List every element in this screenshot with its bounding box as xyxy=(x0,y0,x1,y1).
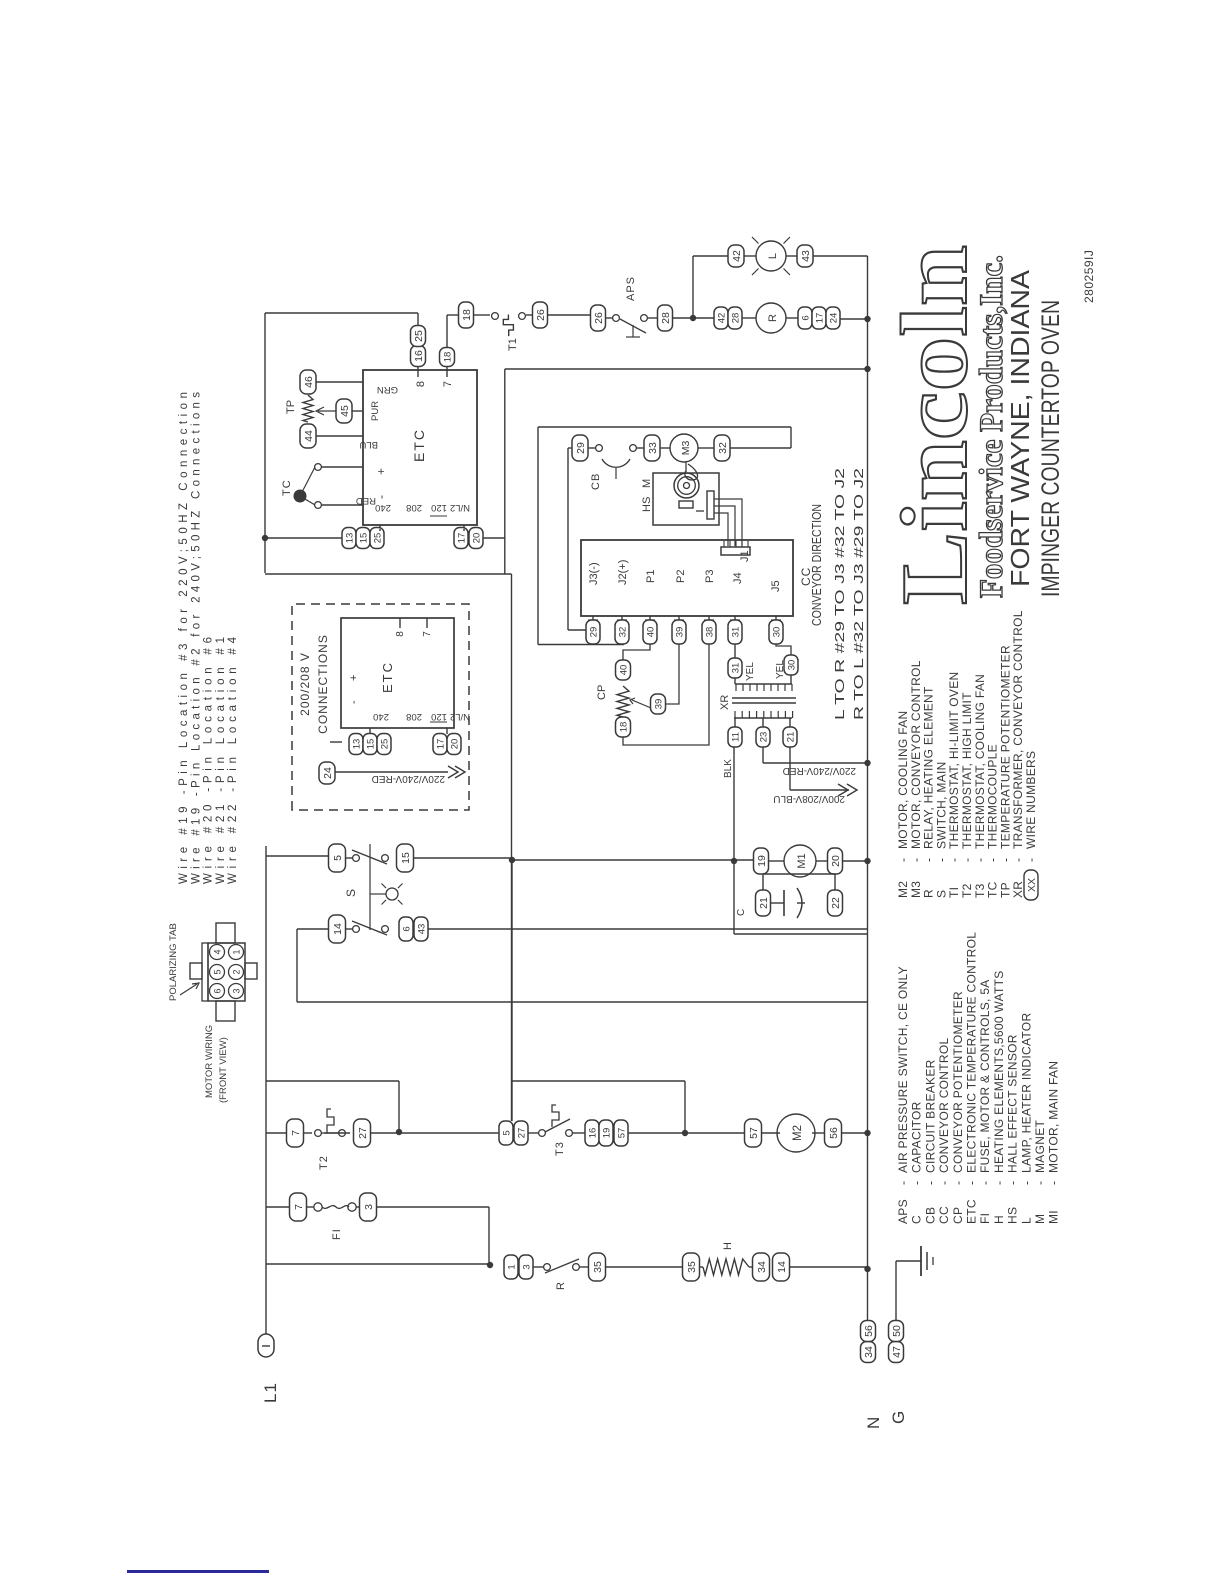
svg-text:CB: CB xyxy=(590,473,602,490)
svg-text:31: 31 xyxy=(730,663,741,674)
svg-text:40: 40 xyxy=(618,665,629,676)
svg-text:CC: CC xyxy=(937,1206,951,1224)
svg-text:-: - xyxy=(992,1181,1006,1185)
svg-text:M: M xyxy=(1033,1214,1047,1224)
svg-text:-: - xyxy=(910,1181,924,1185)
svg-text:56: 56 xyxy=(828,1127,840,1139)
svg-text:Wire #20 -Pin Location #6: Wire #20 -Pin Location #6 xyxy=(203,637,215,884)
svg-text:L TO R #29 TO J3 #32 TO J2: L TO R #29 TO J3 #32 TO J2 xyxy=(833,468,847,720)
svg-text:M: M xyxy=(641,479,653,488)
svg-text:H: H xyxy=(722,1242,734,1250)
svg-text:24: 24 xyxy=(828,313,839,324)
svg-text:XR: XR xyxy=(719,695,731,710)
svg-text:FI: FI xyxy=(978,1213,992,1224)
svg-text:FORT WAYNE, INDIANA: FORT WAYNE, INDIANA xyxy=(1005,269,1035,587)
svg-text:+: + xyxy=(348,675,360,681)
svg-text:11: 11 xyxy=(730,732,741,742)
svg-text:P3: P3 xyxy=(704,570,716,583)
svg-text:27: 27 xyxy=(516,1128,527,1139)
svg-text:200V/208V-BLU: 200V/208V-BLU xyxy=(773,793,845,804)
svg-text:-: - xyxy=(1033,1181,1047,1185)
svg-text:26: 26 xyxy=(535,309,547,321)
svg-text:8: 8 xyxy=(395,631,406,637)
svg-text:CP: CP xyxy=(596,685,608,700)
svg-text:C: C xyxy=(736,909,747,916)
svg-text:21: 21 xyxy=(785,732,796,743)
svg-text:CONNECTIONS: CONNECTIONS xyxy=(316,634,330,734)
svg-text:M3: M3 xyxy=(680,441,692,456)
svg-text:CONVEYOR DIRECTION: CONVEYOR DIRECTION xyxy=(810,504,824,626)
svg-text:MI: MI xyxy=(1047,1210,1061,1224)
svg-text:42: 42 xyxy=(731,250,743,262)
svg-text:26: 26 xyxy=(593,312,605,324)
svg-text:57: 57 xyxy=(616,1128,627,1139)
svg-text:240: 240 xyxy=(373,711,389,722)
svg-text:40: 40 xyxy=(645,627,656,638)
svg-text:HS: HS xyxy=(641,497,653,512)
svg-text:L1: L1 xyxy=(261,1382,280,1403)
svg-text:YEL: YEL xyxy=(775,660,786,679)
svg-text:280259IJ: 280259IJ xyxy=(1082,250,1096,303)
svg-text:-: - xyxy=(937,1181,951,1185)
svg-text:30: 30 xyxy=(771,627,782,638)
svg-text:35: 35 xyxy=(686,1261,698,1273)
svg-text:CIRCUIT BREAKER: CIRCUIT BREAKER xyxy=(923,1059,937,1173)
svg-text:J2(+): J2(+) xyxy=(617,560,629,585)
svg-text:7: 7 xyxy=(422,631,433,637)
svg-text:19: 19 xyxy=(601,1128,612,1139)
svg-text:8: 8 xyxy=(415,381,427,387)
svg-text:BLK: BLK xyxy=(723,759,734,778)
svg-text:35: 35 xyxy=(592,1261,604,1273)
svg-text:N/L2: N/L2 xyxy=(450,502,470,513)
svg-text:17: 17 xyxy=(456,533,467,544)
svg-text:34: 34 xyxy=(756,1261,768,1273)
svg-text:CB: CB xyxy=(923,1207,937,1224)
svg-text:34: 34 xyxy=(863,1346,875,1358)
svg-text:20: 20 xyxy=(830,855,842,867)
svg-text:MOTOR WIRING: MOTOR WIRING xyxy=(204,1025,215,1098)
svg-text:J1: J1 xyxy=(739,550,751,562)
svg-text:23: 23 xyxy=(758,732,769,743)
svg-text:YEL: YEL xyxy=(745,662,756,681)
svg-text:39: 39 xyxy=(653,699,664,710)
svg-text:15: 15 xyxy=(365,739,376,750)
svg-text:-: - xyxy=(978,1181,992,1185)
svg-text:ETC: ETC xyxy=(380,661,395,693)
svg-text:120: 120 xyxy=(431,711,447,722)
svg-text:200/208 V: 200/208 V xyxy=(298,652,312,716)
svg-text:P2: P2 xyxy=(675,570,687,583)
svg-text:56: 56 xyxy=(863,1325,875,1337)
svg-text:43: 43 xyxy=(416,924,427,935)
svg-text:7: 7 xyxy=(442,381,454,387)
svg-text:14: 14 xyxy=(332,923,344,935)
svg-text:17: 17 xyxy=(435,739,446,750)
svg-text:3: 3 xyxy=(521,1264,532,1269)
svg-text:5: 5 xyxy=(332,855,344,861)
svg-text:TP: TP xyxy=(285,400,297,414)
svg-text:18: 18 xyxy=(618,722,629,733)
svg-text:-: - xyxy=(348,700,360,704)
svg-text:18: 18 xyxy=(461,309,473,321)
svg-text:Lincoln: Lincoln xyxy=(883,245,987,605)
svg-text:1: 1 xyxy=(506,1264,517,1269)
svg-text:57: 57 xyxy=(748,1127,760,1139)
svg-text:M2: M2 xyxy=(792,1125,804,1141)
svg-text:28: 28 xyxy=(660,312,672,324)
svg-text:Wire #19 -Pin Location #3 for: Wire #19 -Pin Location #3 for 220V;50HZ … xyxy=(178,392,190,884)
svg-text:L: L xyxy=(1019,1217,1033,1224)
svg-text:CONVEYOR CONTROL: CONVEYOR CONTROL xyxy=(937,1037,951,1173)
svg-text:2: 2 xyxy=(232,969,242,974)
svg-text:13: 13 xyxy=(351,739,362,750)
svg-text:25: 25 xyxy=(413,330,425,342)
svg-text:HALL EFFECT SENSOR: HALL EFFECT SENSOR xyxy=(1006,1034,1020,1173)
svg-text:J4: J4 xyxy=(732,572,744,584)
svg-text:ETC: ETC xyxy=(965,1199,979,1224)
svg-text:Wire #22 -Pin Location #4: Wire #22 -Pin Location #4 xyxy=(227,636,239,884)
svg-text:15: 15 xyxy=(400,852,412,864)
svg-text:(FRONT VIEW): (FRONT VIEW) xyxy=(218,1037,229,1103)
svg-text:ETC: ETC xyxy=(411,428,427,462)
svg-text:5: 5 xyxy=(213,969,223,974)
svg-text:1: 1 xyxy=(232,949,242,954)
svg-text:BLU: BLU xyxy=(359,439,378,450)
svg-text:13: 13 xyxy=(344,533,355,544)
svg-text:29: 29 xyxy=(588,627,599,638)
svg-text:R: R xyxy=(767,314,779,322)
svg-text:M1: M1 xyxy=(796,853,808,868)
svg-text:14: 14 xyxy=(776,1261,788,1273)
svg-text:XX: XX xyxy=(1026,878,1038,892)
svg-text:22: 22 xyxy=(830,897,842,909)
svg-text:J5: J5 xyxy=(770,580,782,592)
svg-text:AIR PRESSURE SWITCH, CE ONLY: AIR PRESSURE SWITCH, CE ONLY xyxy=(896,966,910,1173)
svg-text:MOTOR, MAIN FAN: MOTOR, MAIN FAN xyxy=(1047,1061,1061,1173)
svg-text:CP: CP xyxy=(951,1207,965,1224)
svg-text:-: - xyxy=(1047,1181,1061,1185)
svg-text:18: 18 xyxy=(442,352,453,363)
svg-text:-: - xyxy=(923,1181,937,1185)
svg-text:C: C xyxy=(910,1215,924,1224)
svg-text:GRN: GRN xyxy=(377,384,398,395)
svg-text:24: 24 xyxy=(322,767,334,779)
svg-text:HS: HS xyxy=(1006,1207,1020,1224)
svg-text:5: 5 xyxy=(501,1130,512,1135)
svg-text:-: - xyxy=(951,1181,965,1185)
svg-text:Wire #21 -Pin Location #1: Wire #21 -Pin Location #1 xyxy=(215,637,227,884)
svg-text:29: 29 xyxy=(575,442,587,454)
svg-text:240: 240 xyxy=(375,502,391,513)
svg-text:-: - xyxy=(1006,1181,1020,1185)
svg-text:6: 6 xyxy=(800,315,811,320)
svg-text:31: 31 xyxy=(730,627,741,638)
svg-text:32: 32 xyxy=(717,442,729,454)
svg-text:42: 42 xyxy=(716,313,727,324)
svg-text:45: 45 xyxy=(339,405,351,417)
svg-text:-: - xyxy=(1024,858,1038,862)
svg-text:7: 7 xyxy=(293,1204,305,1210)
svg-text:S: S xyxy=(344,889,358,897)
svg-text:50: 50 xyxy=(891,1325,903,1337)
svg-text:T3: T3 xyxy=(554,1141,566,1156)
svg-text:APS: APS xyxy=(896,1199,910,1224)
svg-text:220V/240V-RED: 220V/240V-RED xyxy=(783,765,856,776)
svg-text:6: 6 xyxy=(401,926,412,931)
svg-text:19: 19 xyxy=(756,855,768,867)
svg-text:15: 15 xyxy=(358,533,369,544)
svg-text:N/L2: N/L2 xyxy=(450,711,470,722)
svg-text:38: 38 xyxy=(704,627,715,638)
svg-text:16: 16 xyxy=(587,1128,598,1139)
svg-text:39: 39 xyxy=(674,627,685,638)
svg-text:PUR: PUR xyxy=(370,401,381,421)
svg-text:XR: XR xyxy=(1011,881,1025,898)
svg-text:P1: P1 xyxy=(645,570,657,583)
svg-text:6: 6 xyxy=(213,988,223,993)
svg-text:33: 33 xyxy=(647,442,659,454)
svg-text:32: 32 xyxy=(617,627,628,638)
svg-text:21: 21 xyxy=(758,897,770,909)
svg-text:T1: T1 xyxy=(507,338,519,351)
svg-text:HEATING ELEMENTS,5600 WATTS: HEATING ELEMENTS,5600 WATTS xyxy=(992,970,1006,1173)
svg-text:25: 25 xyxy=(372,533,383,544)
svg-text:220V/240V-RED: 220V/240V-RED xyxy=(372,773,445,784)
svg-text:16: 16 xyxy=(413,350,425,362)
svg-text:CONVEYOR POTENTIOMETER: CONVEYOR POTENTIOMETER xyxy=(951,991,965,1173)
svg-text:17: 17 xyxy=(814,313,825,324)
svg-text:G: G xyxy=(889,1411,908,1424)
svg-text:H: H xyxy=(992,1215,1006,1224)
svg-text:FI: FI xyxy=(331,1228,343,1240)
svg-text:20: 20 xyxy=(471,533,482,544)
svg-text:7: 7 xyxy=(290,1130,302,1136)
svg-text:3: 3 xyxy=(363,1204,375,1210)
svg-text:44: 44 xyxy=(303,430,315,442)
svg-text:R TO L #32 TO J3 #29 TO J2: R TO L #32 TO J3 #29 TO J2 xyxy=(852,468,866,720)
svg-text:46: 46 xyxy=(303,376,315,388)
svg-text:20: 20 xyxy=(449,739,460,750)
svg-text:47: 47 xyxy=(891,1346,903,1358)
svg-text:28: 28 xyxy=(730,313,741,324)
svg-text:APS: APS xyxy=(625,276,637,301)
svg-text:POLARIZING TAB: POLARIZING TAB xyxy=(168,923,179,1001)
svg-text:J3(-): J3(-) xyxy=(588,562,600,585)
svg-text:N: N xyxy=(864,1417,883,1429)
svg-text:LAMP, HEATER INDICATOR: LAMP, HEATER INDICATOR xyxy=(1019,1013,1033,1173)
svg-text:-: - xyxy=(374,495,388,499)
svg-text:TC: TC xyxy=(281,479,293,496)
svg-text:43: 43 xyxy=(800,250,812,262)
svg-text:IMPINGER COUNTERTOP OVEN: IMPINGER COUNTERTOP OVEN xyxy=(1037,300,1065,597)
svg-text:FUSE, MOTOR & CONTROLS, 5A: FUSE, MOTOR & CONTROLS, 5A xyxy=(978,979,992,1173)
svg-text:27: 27 xyxy=(357,1127,369,1139)
svg-text:-: - xyxy=(896,1181,910,1185)
svg-text:120: 120 xyxy=(431,502,447,513)
svg-text:T2: T2 xyxy=(318,1155,330,1170)
svg-text:L: L xyxy=(767,253,779,259)
svg-text:+: + xyxy=(374,468,388,475)
svg-text:ELECTRONIC TEMPERATURE CONTROL: ELECTRONIC TEMPERATURE CONTROL xyxy=(965,932,979,1173)
svg-text:30: 30 xyxy=(786,660,797,671)
svg-text:CAPACITOR: CAPACITOR xyxy=(910,1101,924,1173)
svg-text:-: - xyxy=(965,1181,979,1185)
svg-text:R: R xyxy=(555,1282,567,1290)
svg-text:Wire #19 -Pin Location #2 for: Wire #19 -Pin Location #2 for 240V;50HZ … xyxy=(190,392,202,884)
svg-text:3: 3 xyxy=(232,988,242,993)
svg-text:25: 25 xyxy=(379,739,390,750)
svg-text:208: 208 xyxy=(406,502,422,513)
svg-text:4: 4 xyxy=(213,949,223,954)
svg-text:-: - xyxy=(1019,1181,1033,1185)
svg-text:WIRE NUMBERS: WIRE NUMBERS xyxy=(1024,751,1038,849)
svg-text:MAGNET: MAGNET xyxy=(1033,1119,1047,1173)
svg-text:208: 208 xyxy=(406,711,422,722)
